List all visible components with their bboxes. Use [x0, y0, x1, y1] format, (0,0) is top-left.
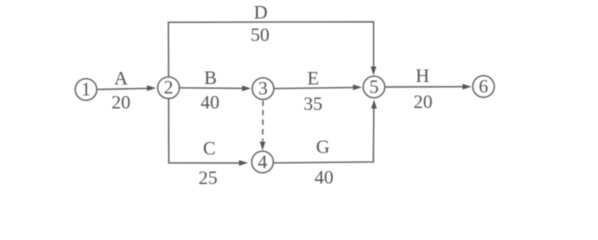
svg-text:6: 6 — [479, 77, 489, 98]
svg-text:H: H — [416, 66, 430, 87]
svg-text:D: D — [254, 2, 268, 23]
svg-text:40: 40 — [201, 93, 220, 114]
svg-text:50: 50 — [251, 25, 270, 46]
svg-text:20: 20 — [414, 92, 433, 113]
svg-text:35: 35 — [304, 94, 323, 115]
svg-text:40: 40 — [315, 168, 334, 189]
svg-text:C: C — [203, 139, 216, 160]
svg-text:5: 5 — [369, 77, 379, 98]
svg-text:3: 3 — [258, 79, 268, 100]
svg-text:1: 1 — [81, 80, 91, 101]
svg-text:A: A — [114, 69, 128, 90]
svg-text:G: G — [316, 137, 330, 158]
svg-text:4: 4 — [258, 152, 268, 173]
svg-text:20: 20 — [112, 93, 131, 114]
svg-text:25: 25 — [199, 168, 218, 189]
svg-text:E: E — [307, 69, 319, 90]
svg-text:B: B — [204, 68, 217, 89]
svg-text:2: 2 — [164, 78, 174, 99]
